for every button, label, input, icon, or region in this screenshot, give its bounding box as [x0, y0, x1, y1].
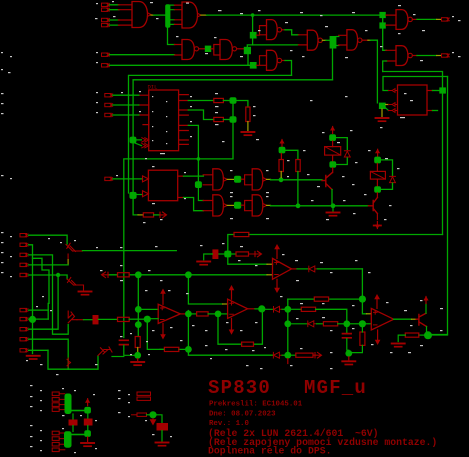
- connector block X8 pin 4: [52, 408, 59, 412]
- wire C3 left to ground: [204, 254, 213, 260]
- wire X7-10 to loop: [29, 349, 49, 351]
- wire node to ground: [348, 357, 350, 360]
- wire node to driver pin2: [386, 104, 389, 106]
- wire rowB node to R15: [291, 308, 301, 310]
- nand U4A input pins: [386, 15, 396, 25]
- wire net to left long vertical rail: [383, 72, 443, 235]
- node junction dot row C right: [359, 320, 366, 327]
- wire op1 inv input: [151, 318, 158, 320]
- connector pin X6: [105, 177, 113, 180]
- connector block X9 pin 2: [52, 437, 59, 441]
- red connector mark on loop: [67, 358, 71, 367]
- wire U5B output down to driver block: [362, 39, 368, 41]
- wire U3C output down to rail1: [282, 60, 285, 62]
- capacitor C8 (polarized block): [84, 419, 93, 426]
- wire angled pin P1 to net y250.3: [77, 250, 83, 252]
- connector pin X7-5: [20, 273, 28, 276]
- supply arrow up relay K2: [375, 149, 380, 157]
- connector block X9 pin 4: [52, 448, 59, 452]
- nand U4B bubble: [408, 53, 412, 57]
- wire node to op4 inv: [366, 323, 371, 325]
- nand U5A bubble: [318, 38, 322, 42]
- resistor R12 (vertical): [135, 337, 140, 348]
- node junction block H output: [330, 36, 337, 49]
- wire yellow stub to R5: [138, 214, 143, 216]
- node junction block K1 bottom: [329, 161, 336, 168]
- wire node to T1 collector: [332, 168, 334, 173]
- net arrow right R9: [249, 251, 262, 257]
- wire K2 node to coil: [376, 163, 378, 171]
- IC2 right pin stubs: [178, 176, 184, 197]
- wire U4B output to pin: [412, 55, 417, 57]
- and-gate U1B output nub: [198, 13, 202, 17]
- wire X7-5 to grounded angled pin: [29, 275, 68, 279]
- wire node to T2 collector: [376, 193, 378, 197]
- nand U6D output nub: [263, 204, 267, 208]
- wire node to IC2 pin B: [137, 194, 143, 196]
- wire U1B output long net to U4A: [201, 14, 207, 16]
- resistor R11: [197, 312, 209, 316]
- wire rowC node to D4: [291, 323, 307, 325]
- node junction dot op2 inv: [215, 311, 222, 318]
- node junction G1 inputs: [250, 32, 257, 39]
- nand-gate U5B (I): [347, 30, 358, 50]
- capacitor C3 (polarized, thick bar): [212, 249, 218, 259]
- connector block X9 pin 3: [52, 442, 59, 446]
- nand-gate U2A: [182, 40, 194, 60]
- node junction block driver inputs: [379, 103, 386, 109]
- wire X8 mass down to C7: [72, 414, 74, 420]
- IC1 clock pin chevron 1: [142, 138, 149, 142]
- wire U1A output to bus: [151, 14, 154, 16]
- svg-text:Prekreslil: EC1045.01: Prekreslil: EC1045.01: [209, 401, 303, 409]
- nand U6B output nub: [263, 178, 267, 182]
- wire R12 bottom to node: [137, 348, 139, 353]
- wire U6B out to T1 base: [267, 178, 271, 180]
- connector block X8 pin 1: [52, 392, 59, 396]
- resistor R20: [296, 353, 313, 357]
- wire X6 to IC2 input A: [113, 178, 143, 180]
- svg-text:SP830: SP830: [208, 377, 271, 399]
- diode D2 (vertical): [390, 176, 396, 182]
- IC2 input pin A triangle: [143, 176, 149, 182]
- resistor R21: [118, 317, 130, 321]
- node bus junction blob between U1A and U1B: [165, 4, 170, 28]
- opamp IC5C (op3): [273, 258, 292, 279]
- connector block X8 pin 2: [52, 398, 59, 402]
- wire Q3 collector up: [425, 304, 427, 314]
- ground below R12/C4: [131, 362, 144, 365]
- wire T2 emitter to supply arrow: [376, 214, 378, 220]
- supply arrow down op2: [231, 318, 233, 329]
- nand U5B(I) input pins: [339, 35, 347, 45]
- wire op2 output: [248, 308, 255, 310]
- resistor R2: [214, 98, 224, 102]
- svg-text:Rev.: 1.0: Rev.: 1.0: [209, 420, 249, 428]
- wire U4A output to pin: [412, 18, 417, 20]
- node junction blob R24: [149, 411, 156, 418]
- node junction dot op1 out: [185, 311, 192, 318]
- wire node to R7 top: [285, 150, 298, 159]
- connector pin X7-8: [20, 328, 28, 331]
- wire R17 bottom elbow to node: [352, 345, 362, 352]
- wire node to R20: [291, 354, 296, 356]
- supply arrow down T2 emitter: [375, 222, 380, 230]
- nand U3B bubble: [277, 28, 281, 32]
- wire node right to right rail: [432, 334, 448, 336]
- node junction blob Q3 emitter: [424, 331, 432, 339]
- wire X7-3 to vertical x52.5: [29, 255, 69, 334]
- wire x188.4 vertical op-amp chain: [188, 278, 222, 346]
- wire R5 to arrow: [154, 214, 160, 216]
- relay K2 diagonal: [370, 171, 385, 179]
- wire X8 pin stubs: [59, 394, 65, 410]
- wire main input rail y274.8: [109, 274, 268, 276]
- wire x287.8 vertical rows A-B-C-bottom: [287, 299, 289, 352]
- resistor R22: [137, 392, 151, 395]
- resistor R17 (vertical): [360, 332, 365, 345]
- wire U3 out pin1 to rail node: [427, 90, 433, 92]
- resistor R9: [236, 252, 249, 256]
- svg-text:MGF_u: MGF_u: [304, 377, 367, 399]
- capacitor C7 (polarized block): [69, 420, 78, 426]
- node junction dot on main wire: [251, 13, 255, 17]
- node junction U2B output: [244, 47, 251, 54]
- IC U3 driver box: [398, 85, 428, 115]
- node junction dot R10 out: [135, 271, 142, 278]
- wire IC2 outA to gate U6A in1: [184, 175, 204, 177]
- wire node to ground: [87, 437, 89, 442]
- node junction block R2: [230, 97, 237, 104]
- nand-gate U4A: [396, 10, 408, 30]
- connector pin X7-3: [20, 253, 28, 256]
- ground below T1: [327, 213, 340, 216]
- capacitor C5 (vertical plates): [343, 334, 352, 338]
- relay K1 diagonal: [325, 147, 341, 156]
- IC1 clock pin chevron 2: [142, 143, 149, 147]
- net arrow left (main input): [102, 272, 109, 278]
- and-gate U1A input pins: [119, 5, 133, 25]
- relay K1 coil: [325, 147, 341, 156]
- wire P1 tail down to row4: [67, 254, 69, 260]
- wire node to op2 inv input: [221, 313, 227, 315]
- resistor R10: [118, 273, 130, 277]
- wire R6 bottom to node: [280, 172, 282, 178]
- supply arrow up relay K1: [330, 126, 335, 134]
- resistor R8 on rail: [234, 232, 249, 236]
- connector pin X7-6: [20, 308, 28, 311]
- wire U4B lower input from left-vertical feed: [383, 61, 387, 72]
- nand U3C bubble: [277, 58, 281, 62]
- supply arrow down R24 node: [150, 418, 155, 424]
- node junction block K2 top: [374, 157, 381, 164]
- IC IC2 box: [148, 170, 177, 201]
- connector pin X7-10: [20, 349, 28, 352]
- node junction dot row B: [284, 306, 291, 313]
- ground below driver node: [376, 118, 389, 121]
- resistor R6 (vertical): [279, 160, 283, 172]
- nand-gate U6D (E2): [252, 195, 263, 216]
- wire node to U6A in2: [198, 188, 203, 201]
- connector pin X7-4: [20, 263, 28, 266]
- nand U2A input pins: [175, 45, 183, 56]
- wire P2 to cap C6: [77, 319, 84, 321]
- wire node column x233 down and left to x123.8: [124, 104, 233, 338]
- node junction dot x198.4 on wire y158.9: [197, 157, 201, 161]
- label speckles pin names and values: [96, 3, 98, 4]
- nand U6A output nub: [223, 178, 227, 182]
- opamp IC5B (op2): [228, 299, 248, 318]
- svg-text:Dne: 08.07.2023: Dne: 08.07.2023: [209, 411, 276, 419]
- wire node to D1 bottom: [336, 158, 347, 165]
- diode D3: [274, 306, 283, 312]
- ground below C3: [197, 262, 210, 265]
- wire K1 node to diode D1 top: [336, 138, 347, 150]
- wire R21 to op1 inv node: [129, 318, 144, 320]
- resistor R14: [314, 297, 328, 301]
- node junction blocks at gate U4A inputs: [379, 12, 385, 18]
- connector block X8 pin 3: [52, 403, 59, 407]
- node junction dot T1 emitter: [331, 203, 336, 208]
- wire op4 output to Q3 base: [394, 318, 412, 320]
- wire bus stubs to U1B: [170, 5, 175, 24]
- wire X5 pins to IC1 inputs: [113, 95, 139, 115]
- node junction blob U6A in2: [195, 181, 202, 188]
- wire R17 top stub: [361, 327, 363, 332]
- wire C5 top stub: [346, 327, 348, 332]
- wire node to node right: [350, 323, 359, 325]
- nand U6A input pins: [203, 175, 213, 185]
- wire rail1 y75.4 to IC1 left vertical: [129, 75, 292, 193]
- connector pin X3-1 (input row 2a): [102, 53, 110, 56]
- ground below R4: [241, 132, 254, 135]
- ground below C5/R17: [342, 361, 355, 364]
- wire X9 pin stubs: [59, 433, 65, 450]
- transistor T1: [322, 173, 332, 190]
- wire X7-8 to vertical x58.1: [29, 275, 59, 329]
- supply arrow down op4: [377, 330, 379, 340]
- node junction dot RC ground: [134, 352, 141, 359]
- driver U3 input pin 3: [389, 109, 398, 113]
- wire node to ground: [137, 359, 139, 361]
- node junction dot op1 feed: [185, 271, 192, 278]
- wire jog down and bottom net y355.2: [188, 353, 273, 355]
- wire C7 to X9 mass: [72, 426, 74, 432]
- wire R7 bottom to node: [297, 172, 299, 204]
- wire x138.3 down to op1 plus and R12: [137, 277, 139, 337]
- svg-text:Doplnena rele do DPS.: Doplnena rele do DPS.: [208, 446, 331, 457]
- wire X7-6 row: [29, 309, 49, 311]
- node junction dot row C: [284, 320, 291, 327]
- supply arrow up op2: [231, 290, 233, 299]
- wire op3 output to D5: [292, 268, 298, 270]
- wire K2 node to diode D2 top: [381, 160, 393, 176]
- wire supply node down to C8: [87, 414, 89, 419]
- wire R2 to node: [223, 100, 229, 102]
- net arrow right (R5 output): [160, 212, 167, 218]
- wire C9 down to ground: [161, 431, 163, 442]
- wire R11 to node: [208, 313, 215, 315]
- connector pin X1-4: [102, 23, 110, 26]
- wire K1 node to coil: [332, 141, 334, 147]
- nand-gate U2B: [220, 40, 232, 60]
- supply arrow down op3: [276, 279, 278, 288]
- wire node to R6 top: [280, 153, 282, 159]
- node junction block supply X8: [84, 407, 91, 414]
- wire U6D out to T2 base: [267, 204, 271, 206]
- wire red stub below bottom-net node: [287, 359, 289, 364]
- wire node to R4 top: [237, 101, 248, 108]
- angled connector pin P3: [67, 278, 78, 286]
- wire D5 to x362.4: [317, 268, 362, 270]
- angled connector pin P4: [98, 347, 112, 356]
- IC IC1 box: [149, 90, 179, 151]
- wire fork to U6B inputs: [241, 175, 252, 185]
- connector pin X1-3: [102, 18, 110, 21]
- resistor R24: [137, 413, 147, 416]
- resistor R7 (vertical): [296, 160, 300, 172]
- connector block X9 pin 1: [52, 431, 59, 435]
- connector pin X2-1: [442, 18, 450, 21]
- driver U3 input pin 2: [389, 103, 398, 107]
- nand-gate U6C (E1): [213, 195, 224, 216]
- nand U2B bubble: [232, 47, 236, 51]
- wire op1 out to R11: [192, 313, 197, 315]
- node junction mass X8: [65, 394, 72, 415]
- diode D5: [309, 266, 318, 272]
- nand-gate U3B (G1): [267, 20, 278, 40]
- resistor R3: [214, 117, 224, 121]
- node junction IC2 input B: [129, 192, 136, 199]
- wire R4 to ground: [247, 122, 249, 131]
- connector pin X5-3: [105, 113, 113, 116]
- wire R24 left stub: [132, 414, 138, 416]
- connector pin X7-2: [20, 243, 28, 246]
- wire node to C9: [157, 415, 163, 423]
- resistor R13: [242, 342, 254, 346]
- node junction U2A output: [205, 46, 211, 52]
- wire clock vertical continues to IC2 node and resistor row: [133, 143, 138, 215]
- node junction dot X7-5/X7-8: [56, 273, 60, 277]
- node junction block U6A out: [234, 176, 241, 183]
- nand-gate U3C (C2): [267, 50, 278, 70]
- wire Q3 emitter down to node: [426, 327, 428, 332]
- driver U3 input pin 1: [389, 89, 398, 93]
- node junction dot row A right: [359, 296, 366, 303]
- wire node up to H-input rail y44.9: [247, 45, 298, 48]
- node junction block K2 bottom: [374, 186, 381, 192]
- wire U3 out pin2 stub: [427, 110, 433, 112]
- and-gate U1B input pins: [175, 5, 183, 24]
- node junction blob op1 inv: [144, 316, 151, 323]
- wire IC1 out row5 to vertical x198.4: [188, 125, 198, 181]
- connector pin X7-1: [20, 234, 28, 237]
- wire U6A out to node: [227, 178, 234, 180]
- wire R24 to node: [147, 414, 151, 416]
- connector pin X5-1: [105, 94, 113, 97]
- wire vertical x382.7 U4A inputs to U4B input: [383, 15, 387, 50]
- capacitor C9 (polarized block): [157, 423, 169, 431]
- wire node down to ground: [381, 109, 383, 117]
- angled connector pin P1: [66, 243, 77, 251]
- wire op2 out node segments: [255, 308, 273, 310]
- supply arrow up (R6/R7 rail): [279, 139, 284, 147]
- connector pin X3-2 (input row 2b): [102, 64, 110, 67]
- wire X3-2 long to node at gate U3C input: [110, 64, 251, 66]
- ground below C9: [156, 443, 169, 446]
- wire node to R9: [231, 253, 236, 255]
- connector pin X5-2: [105, 103, 113, 106]
- diode D6: [273, 352, 282, 358]
- resistor R15: [301, 307, 315, 311]
- resistor R18: [405, 333, 419, 337]
- wire weave jog path: [33, 258, 50, 319]
- wire node down to rail2: [332, 49, 334, 80]
- connector pin X1-2: [102, 8, 110, 11]
- wire node to D2 bottom: [381, 183, 393, 189]
- opamp IC5D (op4): [371, 308, 393, 330]
- relay K2 coil: [370, 171, 385, 179]
- node junction dot R6 bottom: [279, 177, 284, 182]
- nand-gate U6A (D1): [213, 169, 224, 190]
- wire rail2 y79.8 to IC1 clock vertical: [133, 80, 332, 138]
- transistor T2: [369, 198, 378, 214]
- wire X8 mass to supply node: [72, 410, 85, 412]
- and-gate U1A output nub: [148, 13, 152, 17]
- node junction block supply R6: [279, 147, 286, 154]
- node junction block U3 out on left rail: [439, 87, 446, 93]
- wire node to I input forks: [336, 37, 338, 46]
- wire C5 bottom to node: [347, 339, 349, 351]
- node junction dot bottom net: [284, 352, 291, 359]
- nand U4A bubble: [408, 17, 412, 21]
- opamp IC5A (op1): [158, 304, 180, 323]
- nand U4B input pins: [386, 50, 396, 61]
- node junction dot bottom rail: [185, 346, 192, 353]
- wire K1 coil bottom to node: [332, 155, 334, 161]
- supply arrow up X8: [85, 398, 90, 406]
- nand U5B bubble: [358, 38, 362, 42]
- nand U5A(H) input pins: [299, 35, 308, 45]
- nand U6C output nub: [223, 204, 227, 208]
- nand-gate U6B (D2): [252, 169, 263, 190]
- wire net to right long vertical rail: [383, 77, 448, 91]
- nand U6C(E1) input pins: [203, 201, 213, 211]
- wire X9 mass to ground node: [72, 434, 85, 436]
- supply arrow up op4: [376, 299, 378, 308]
- wire clock node to clock pins: [135, 140, 141, 146]
- wire node down to op3 plus input: [228, 258, 267, 265]
- wire C8 down to X9 right node: [87, 426, 89, 431]
- node junction block U6C out: [234, 202, 241, 209]
- wire fork to U3C(C2) inputs: [256, 56, 266, 66]
- supply arrow up op1: [162, 294, 164, 305]
- wire T1 emitter down to rail: [331, 190, 333, 204]
- node junction dot x138 y324.6: [135, 321, 142, 328]
- node junction block R3: [230, 116, 237, 123]
- wire U2A output to node: [199, 48, 205, 50]
- wire fork to U3B(G1) inputs: [256, 26, 266, 36]
- node junction dot op2 out: [258, 305, 265, 312]
- wire U3B output elbow to H input: [282, 29, 285, 31]
- angled connector pin P2: [68, 311, 77, 323]
- diode D1 (vertical): [344, 151, 350, 157]
- wire node left to R18: [419, 334, 424, 336]
- connector pin X7-9: [20, 338, 28, 341]
- ground common left: [27, 356, 40, 359]
- wire D3 to node x287.8: [282, 308, 284, 310]
- wire C4 bottom elbow to node: [124, 345, 135, 355]
